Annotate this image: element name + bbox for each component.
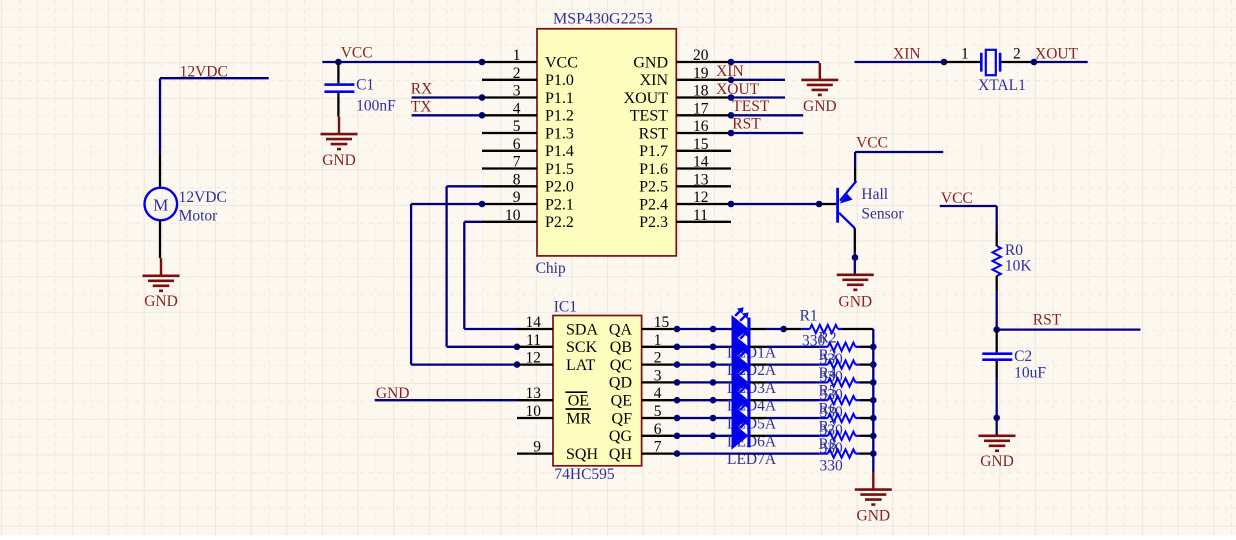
svg-text:RST: RST	[1033, 312, 1062, 329]
pin 9 SQH	[517, 439, 598, 463]
junction pin19	[728, 77, 735, 84]
junction Q row 3 pin	[674, 361, 681, 368]
pin 13 OE	[517, 385, 589, 409]
svg-text:8: 8	[513, 171, 521, 188]
wire QC row	[677, 363, 732, 365]
svg-text:R8: R8	[819, 436, 837, 453]
junction crystal pin2	[1031, 59, 1038, 66]
svg-text:R6: R6	[819, 401, 837, 418]
svg-text:M: M	[153, 196, 168, 215]
wire row 8 to R8	[677, 452, 820, 454]
wire bus ground stem	[872, 472, 874, 490]
svg-text:XIN: XIN	[716, 63, 744, 80]
ground C1	[321, 117, 358, 169]
pin 20 GND	[633, 47, 731, 71]
svg-text:TEST: TEST	[732, 98, 770, 115]
svg-text:P2.2: P2.2	[545, 214, 574, 231]
svg-text:3: 3	[513, 83, 521, 100]
wire QB row	[677, 346, 732, 348]
svg-text:QB: QB	[610, 339, 632, 356]
wire QD row	[677, 381, 732, 383]
svg-text:330: 330	[820, 458, 844, 475]
wire R0 to RST node	[996, 291, 998, 330]
svg-text:4: 4	[513, 100, 521, 117]
svg-text:VCC: VCC	[856, 135, 888, 152]
svg-text:Hall: Hall	[861, 186, 888, 203]
svg-text:R0: R0	[1005, 242, 1023, 259]
junction Q row 1 pin	[674, 326, 681, 333]
wire P2.2 to SDA	[464, 222, 517, 329]
pin 11 SCK	[517, 332, 598, 356]
junction bus row 8	[870, 450, 877, 457]
svg-text:9: 9	[513, 189, 521, 206]
wire TX net	[412, 114, 482, 116]
wire QE row	[677, 399, 732, 401]
svg-text:3: 3	[654, 367, 662, 384]
resistor R1 330	[784, 308, 874, 350]
svg-text:GND: GND	[633, 54, 668, 71]
svg-text:P2.0: P2.0	[545, 179, 574, 196]
svg-text:GND: GND	[144, 293, 178, 310]
svg-text:1: 1	[513, 47, 521, 64]
svg-text:15: 15	[693, 136, 709, 153]
svg-text:13: 13	[693, 171, 709, 188]
wire QF row	[677, 417, 732, 419]
wire resistor bus	[872, 329, 874, 472]
svg-text:P1.1: P1.1	[545, 90, 574, 107]
wire pin20 to ground	[731, 61, 819, 63]
pin 19 XIN	[640, 65, 731, 89]
resistor R5 330	[819, 383, 874, 422]
svg-text:XOUT: XOUT	[716, 81, 760, 98]
pin 10 MR	[517, 403, 591, 427]
svg-text:SCK: SCK	[566, 339, 598, 356]
junction SCK	[514, 344, 521, 351]
wire row 2 to R2	[766, 346, 819, 348]
svg-text:2: 2	[513, 65, 521, 82]
junction RST node	[993, 326, 1000, 333]
wire XIN to crystal	[855, 61, 945, 63]
junction Q row 6 mid	[710, 415, 717, 422]
svg-text:RST: RST	[639, 125, 669, 142]
pin 17 TEST	[630, 100, 731, 124]
svg-text:P2.4: P2.4	[639, 196, 668, 213]
pin 13 P2.5	[639, 171, 731, 195]
svg-text:P1.2: P1.2	[545, 108, 574, 125]
LED LED4A	[732, 361, 767, 397]
pin 1 VCC	[482, 47, 578, 71]
svg-text:TX: TX	[411, 99, 432, 116]
LED LED7A	[732, 414, 767, 450]
junction bus row 4	[870, 379, 877, 386]
ground motor	[143, 258, 180, 310]
svg-text:GND: GND	[376, 385, 410, 402]
svg-text:7: 7	[654, 439, 662, 456]
pin 1 QB	[610, 332, 677, 356]
svg-text:QG: QG	[609, 428, 633, 445]
wire QG row	[677, 435, 732, 437]
junction Q row 6 pin	[674, 415, 681, 422]
svg-text:P2.5: P2.5	[639, 179, 668, 196]
svg-text:74HC595: 74HC595	[554, 466, 615, 483]
svg-text:P2.3: P2.3	[639, 214, 668, 231]
junction VCC-C1	[335, 59, 342, 66]
svg-text:1: 1	[961, 46, 969, 63]
ground hall	[837, 275, 874, 311]
pin 14 P1.6	[639, 154, 731, 178]
pin 2 QC	[610, 350, 677, 374]
svg-text:12VDC: 12VDC	[180, 64, 228, 81]
wire row 5 to R5	[766, 399, 819, 401]
junction crystal pin1	[941, 59, 948, 66]
ground LED bus	[855, 490, 892, 525]
pin 18 XOUT	[624, 83, 731, 107]
svg-text:XIN: XIN	[640, 72, 669, 89]
svg-text:P2.1: P2.1	[545, 196, 574, 213]
svg-text:19: 19	[693, 65, 709, 82]
svg-text:11: 11	[693, 207, 708, 224]
svg-text:GND: GND	[322, 152, 356, 169]
pin 7 QH	[609, 439, 677, 463]
svg-text:IC1: IC1	[554, 299, 577, 316]
svg-text:5: 5	[654, 403, 662, 420]
wire 12VDC net	[160, 78, 269, 154]
svg-text:6: 6	[654, 421, 662, 438]
svg-text:GND: GND	[980, 453, 1014, 470]
LED LED6A	[732, 396, 767, 432]
svg-text:P1.6: P1.6	[639, 161, 668, 178]
svg-text:2: 2	[1013, 46, 1021, 63]
junction Q row 8 pin	[674, 450, 681, 457]
svg-text:RST: RST	[732, 116, 761, 133]
junction pin17	[728, 112, 735, 119]
pin 9 P2.1	[482, 189, 574, 213]
svg-text:1: 1	[654, 332, 662, 349]
svg-text:QD: QD	[609, 375, 632, 392]
crystal XTAL1	[944, 46, 1034, 95]
svg-text:15: 15	[654, 314, 670, 331]
junction bus row 2	[870, 344, 877, 351]
pin 10 P2.2	[482, 207, 574, 231]
svg-text:13: 13	[526, 385, 542, 402]
svg-text:Sensor: Sensor	[861, 205, 904, 222]
svg-text:LAT: LAT	[566, 357, 596, 374]
wire P2.1 to LAT	[411, 204, 517, 365]
svg-text:14: 14	[526, 314, 542, 331]
resistor R4 330	[819, 365, 874, 404]
svg-text:16: 16	[693, 118, 709, 135]
svg-text:QH: QH	[609, 446, 633, 463]
junction pin1	[479, 59, 486, 66]
svg-text:QC: QC	[610, 357, 632, 374]
svg-text:14: 14	[693, 154, 709, 171]
pin 2 P1.0	[482, 65, 574, 89]
junction Q row 1 mid	[710, 326, 717, 333]
junction pin12	[728, 201, 735, 208]
svg-text:4: 4	[654, 385, 662, 402]
pin 12 P2.4	[639, 189, 731, 213]
resistor R0 10K	[993, 232, 1033, 292]
svg-text:R2: R2	[819, 329, 837, 346]
wire row 6 to R6	[766, 417, 819, 419]
svg-text:P1.3: P1.3	[545, 125, 574, 142]
svg-text:TEST: TEST	[630, 108, 668, 125]
pin 11 P2.3	[639, 207, 731, 231]
wire TEST stub	[731, 114, 803, 116]
junction LAT	[514, 361, 521, 368]
svg-text:XIN: XIN	[893, 46, 921, 63]
wire row 3 to R3	[766, 363, 819, 365]
svg-text:R3: R3	[819, 347, 837, 364]
junction pin3	[479, 94, 486, 101]
junction hall base	[816, 201, 823, 208]
svg-text:12: 12	[693, 189, 709, 206]
junction C2 ground	[993, 415, 1000, 422]
junction hall ground	[852, 254, 859, 261]
junction bus row 5	[870, 397, 877, 404]
resistor R3 330	[819, 347, 874, 386]
pin 15 QA	[609, 314, 677, 338]
LED LED5A	[732, 379, 767, 415]
svg-text:10: 10	[505, 207, 521, 224]
svg-text:100nF: 100nF	[356, 98, 396, 115]
pin 5 QF	[612, 403, 677, 427]
svg-text:OE: OE	[568, 393, 589, 410]
wire RST stub	[731, 132, 803, 134]
junction Q row 7 pin	[674, 433, 681, 440]
junction Q row 3 mid	[710, 361, 717, 368]
svg-text:10uF: 10uF	[1014, 365, 1046, 382]
junction pin18	[728, 94, 735, 101]
junction Q row 4 mid	[710, 379, 717, 386]
wire C2 to ground	[996, 378, 998, 436]
svg-text:VCC: VCC	[341, 45, 373, 62]
svg-text:20: 20	[693, 47, 709, 64]
wire LED1A to R1	[766, 328, 783, 330]
pin 3 QD	[609, 367, 677, 391]
capacitor C1 100nF	[324, 63, 396, 117]
pin 6 QG	[609, 421, 677, 445]
svg-text:5: 5	[513, 118, 521, 135]
svg-text:QF: QF	[612, 410, 633, 427]
junction Q row 5 mid	[710, 397, 717, 404]
svg-text:SQH: SQH	[566, 446, 598, 463]
wire row 4 to R4	[766, 381, 819, 383]
junction Q row 5 pin	[674, 397, 681, 404]
pin 15 P1.7	[639, 136, 731, 160]
svg-text:GND: GND	[803, 98, 837, 115]
svg-text:GND: GND	[839, 293, 873, 310]
wire row 7 to R7	[766, 435, 819, 437]
pin 4 QE	[611, 385, 677, 409]
resistor R6 330	[819, 401, 874, 440]
svg-text:18: 18	[693, 83, 709, 100]
svg-text:10K: 10K	[1005, 258, 1033, 275]
LED LED3A	[732, 343, 767, 379]
chip U1 MSP430G2253 body	[537, 29, 676, 256]
wire RX net	[412, 96, 482, 98]
svg-text:XTAL1: XTAL1	[978, 77, 1026, 94]
wire QA row	[677, 328, 732, 330]
svg-text:GND: GND	[857, 508, 891, 525]
svg-text:P1.4: P1.4	[545, 143, 574, 160]
junction Q row 7 mid	[710, 433, 717, 440]
svg-text:2: 2	[654, 350, 662, 367]
LED LED1A	[732, 307, 767, 343]
junction Q row 2 pin	[674, 344, 681, 351]
svg-text:R5: R5	[819, 383, 837, 400]
svg-text:P1.5: P1.5	[545, 161, 574, 178]
resistor R7 330	[819, 418, 874, 457]
svg-text:12: 12	[526, 350, 542, 367]
junction pin9	[479, 201, 486, 208]
wire VCC hall	[855, 152, 943, 168]
pin 6 P1.4	[482, 136, 574, 160]
wire XOUT from crystal	[1034, 61, 1088, 63]
svg-text:Chip: Chip	[536, 260, 566, 277]
svg-text:C2: C2	[1014, 348, 1032, 365]
pin 7 P1.5	[482, 154, 574, 178]
LED LED2A	[732, 325, 767, 361]
svg-text:MR: MR	[566, 410, 591, 427]
pin 8 P2.0	[482, 171, 574, 195]
wire VCC to pin1	[322, 61, 482, 63]
junction bus row 6	[870, 415, 877, 422]
svg-text:9: 9	[533, 439, 541, 456]
junction bus row 3	[870, 361, 877, 368]
junction Q row 2 mid	[710, 344, 717, 351]
resistor R8 330	[819, 436, 874, 475]
wire GND to OE	[375, 399, 517, 401]
pin 3 P1.1	[482, 83, 574, 107]
wire VCC R0	[940, 206, 997, 232]
capacitor C2 10uF	[982, 330, 1046, 382]
junction R1	[780, 326, 787, 333]
svg-text:P1.0: P1.0	[545, 72, 574, 89]
svg-text:XOUT: XOUT	[624, 90, 669, 107]
svg-text:R4: R4	[819, 365, 837, 382]
svg-text:QE: QE	[611, 393, 632, 410]
svg-text:VCC: VCC	[545, 54, 578, 71]
wire P2.0 to SCK	[447, 186, 517, 346]
svg-text:VCC: VCC	[941, 190, 973, 207]
svg-text:17: 17	[693, 100, 709, 117]
pin 16 RST	[639, 118, 731, 142]
svg-text:C1: C1	[356, 77, 374, 94]
svg-text:SDA: SDA	[566, 321, 598, 338]
wire XIN stub	[731, 79, 785, 81]
svg-text:6: 6	[513, 136, 521, 153]
svg-text:P1.7: P1.7	[639, 143, 668, 160]
wire XOUT stub	[731, 96, 785, 98]
svg-text:11: 11	[526, 332, 541, 349]
svg-text:R7: R7	[819, 418, 837, 435]
svg-text:12VDC: 12VDC	[179, 189, 227, 206]
resistor R2 330	[819, 329, 874, 368]
svg-text:10: 10	[526, 403, 542, 420]
svg-text:Motor: Motor	[179, 207, 219, 224]
svg-text:XOUT: XOUT	[1035, 46, 1079, 63]
ground C2	[979, 436, 1016, 470]
junction pin4	[479, 112, 486, 119]
wire hall emitter to ground	[854, 253, 856, 275]
chip IC1 74HC595 body	[553, 316, 642, 466]
junction pin16	[728, 130, 735, 137]
wire RST net	[997, 328, 1141, 330]
pin 4 P1.2	[482, 100, 574, 124]
pin 12 LAT	[517, 350, 596, 374]
svg-text:R1: R1	[800, 308, 818, 325]
ground pin20	[801, 63, 838, 115]
svg-text:MSP430G2253: MSP430G2253	[553, 11, 653, 28]
svg-text:RX: RX	[411, 81, 433, 98]
wire P2.4 to hall base	[731, 203, 819, 205]
svg-text:QA: QA	[609, 321, 633, 338]
junction pin20	[728, 59, 735, 66]
svg-text:7: 7	[513, 154, 521, 171]
pin 5 P1.3	[482, 118, 574, 142]
junction Q row 4 pin	[674, 379, 681, 386]
motor M1 12VDC Motor	[145, 154, 227, 258]
transistor Q1 Hall Sensor	[819, 168, 904, 253]
pin 14 SDA	[517, 314, 598, 338]
junction bus row 7	[870, 433, 877, 440]
